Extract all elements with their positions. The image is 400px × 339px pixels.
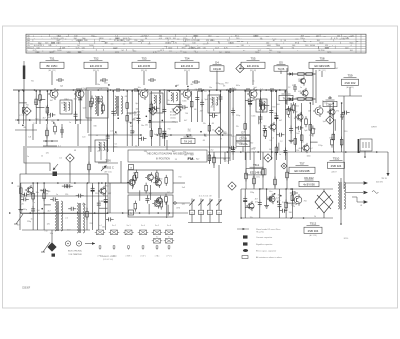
wire — [301, 103, 303, 152]
svg-text:2k2: 2k2 — [56, 208, 59, 210]
ground — [264, 204, 269, 209]
junction — [179, 90, 181, 92]
value label — [78, 99, 81, 101]
svg-text:10n: 10n — [34, 102, 37, 104]
test point TP2 — [66, 154, 74, 162]
wire — [244, 91, 246, 160]
diode D6 — [287, 97, 295, 100]
svg-text:10n: 10n — [138, 87, 141, 89]
svg-text:C0G40: C0G40 — [213, 67, 222, 71]
svg-text:100: 100 — [74, 35, 77, 37]
capacitor C34 — [342, 111, 350, 115]
svg-text:C5030F: C5030F — [22, 288, 31, 290]
output transformer TR10 — [338, 182, 346, 210]
switch S3 — [109, 230, 119, 235]
value label — [93, 125, 96, 127]
junction — [187, 89, 189, 91]
value label — [309, 148, 313, 150]
junction — [32, 182, 34, 184]
capacitor C56 — [62, 184, 70, 188]
svg-text:39: 39 — [46, 194, 48, 196]
svg-text:220p: 220p — [238, 143, 242, 145]
wire — [245, 152, 247, 189]
wire — [76, 119, 82, 121]
value label — [108, 193, 111, 195]
svg-text:10k: 10k — [218, 213, 221, 215]
svg-text:8p2: 8p2 — [172, 151, 175, 153]
diode D5 — [287, 72, 295, 75]
wire — [188, 222, 222, 224]
svg-text:330: 330 — [129, 114, 132, 116]
wire — [105, 183, 107, 230]
junction — [87, 182, 89, 184]
IF transformer TR5 — [256, 99, 267, 112]
junction — [101, 182, 103, 184]
svg-text:1n: 1n — [297, 120, 299, 122]
wire — [39, 91, 41, 124]
svg-text:Elect. capac. capacitor: Elect. capac. capacitor — [256, 250, 276, 253]
capacitor C22 — [229, 146, 237, 150]
svg-text:6,75: 6,75 — [224, 47, 228, 49]
wire — [79, 91, 81, 124]
wire — [261, 105, 270, 107]
svg-text:10n: 10n — [99, 201, 102, 203]
svg-text:560: 560 — [272, 106, 275, 108]
wire — [291, 189, 293, 218]
junction — [126, 90, 128, 92]
junction — [170, 134, 172, 136]
svg-text:94: 94 — [284, 40, 286, 42]
wire — [224, 152, 226, 162]
legend styroflex capacitor — [243, 242, 273, 246]
junction — [41, 208, 43, 210]
pot box P1 — [189, 210, 194, 214]
label D5 — [274, 60, 288, 71]
text B230 — [344, 238, 348, 240]
svg-text:10,7: 10,7 — [78, 52, 82, 54]
junction — [277, 201, 279, 203]
svg-text:2,2k: 2,2k — [267, 197, 271, 199]
svg-text:10n: 10n — [209, 87, 212, 89]
value label — [294, 118, 296, 120]
junction — [310, 102, 312, 104]
label D7 — [236, 130, 250, 146]
svg-text:1k: 1k — [26, 111, 28, 113]
svg-text:68: 68 — [320, 66, 322, 68]
wire — [241, 188, 333, 190]
note box FM — [128, 150, 207, 162]
wire — [262, 152, 264, 189]
svg-text:0,1: 0,1 — [97, 151, 100, 153]
value label — [223, 133, 226, 135]
value label — [222, 131, 227, 133]
capacitor C39 — [148, 78, 156, 82]
svg-text:0,1: 0,1 — [115, 143, 118, 145]
junction — [53, 122, 55, 124]
value label — [277, 200, 280, 202]
svg-text:1n: 1n — [69, 122, 71, 124]
capacitor C60 — [50, 197, 58, 201]
transistor Q3 — [298, 76, 305, 85]
junction — [79, 90, 81, 92]
wire — [20, 195, 108, 197]
junction — [260, 90, 262, 92]
junction — [169, 212, 171, 214]
wire — [278, 189, 280, 218]
wire — [229, 88, 231, 161]
svg-text:1620: 1620 — [230, 43, 234, 45]
svg-text:4k7: 4k7 — [176, 85, 179, 87]
capacitor C64 — [258, 199, 262, 207]
wire — [46, 124, 48, 146]
junction — [76, 119, 78, 121]
junction — [162, 120, 164, 122]
svg-text:94: 94 — [145, 38, 147, 40]
capacitor C20 — [209, 113, 217, 117]
label T58 — [309, 56, 335, 72]
junction — [345, 151, 347, 153]
resistor R45 — [145, 183, 148, 194]
wire — [138, 91, 140, 146]
resistor R51 — [213, 155, 216, 166]
svg-text:100: 100 — [345, 47, 348, 49]
resistor R30 — [287, 106, 290, 117]
value label — [263, 125, 266, 127]
svg-text:2k2: 2k2 — [271, 196, 274, 198]
wire — [13, 89, 287, 91]
junction — [259, 188, 261, 190]
svg-text:( PU ): ( PU ) — [167, 256, 172, 258]
junction — [376, 151, 378, 153]
value label — [220, 83, 225, 85]
wire — [340, 210, 342, 224]
svg-text:4k7: 4k7 — [210, 107, 213, 109]
test point TP7 — [326, 116, 334, 124]
value label — [274, 113, 277, 115]
svg-text:12: 12 — [41, 156, 43, 158]
capacitor C57 — [22, 193, 30, 197]
arrow to supply — [386, 173, 389, 176]
junction — [280, 195, 282, 197]
junction — [222, 134, 224, 136]
svg-text:15k: 15k — [167, 100, 170, 102]
connector box — [358, 139, 372, 153]
junction — [187, 86, 189, 88]
junction — [292, 188, 294, 190]
resistor R19 — [159, 126, 162, 137]
svg-text:10n: 10n — [228, 148, 231, 150]
wire — [150, 91, 152, 146]
svg-text:6,75: 6,75 — [76, 47, 80, 49]
svg-text:6,8: 6,8 — [270, 140, 273, 142]
svg-text:5p6: 5p6 — [254, 87, 257, 89]
junction — [98, 182, 100, 184]
resistor R32 — [292, 102, 295, 113]
svg-text:200: 200 — [321, 50, 324, 52]
svg-text:6,75: 6,75 — [153, 52, 157, 54]
svg-text:4k7: 4k7 — [45, 111, 48, 113]
svg-text:15k: 15k — [329, 138, 332, 140]
svg-text:D9-D12: D9-D12 — [304, 176, 314, 180]
junction — [333, 151, 335, 153]
svg-text:8p2: 8p2 — [136, 103, 139, 105]
wire — [218, 207, 220, 211]
junction — [107, 212, 109, 214]
svg-text:VOLTMETER: VOLTMETER — [68, 254, 82, 256]
wire — [286, 68, 288, 105]
switch caption — [127, 225, 131, 227]
junction — [276, 90, 278, 92]
junction — [131, 90, 133, 92]
transformer TR3 — [55, 201, 63, 231]
svg-text:750: 750 — [304, 200, 307, 202]
svg-text:1620: 1620 — [193, 35, 197, 37]
svg-text:220p: 220p — [251, 149, 255, 151]
svg-text:0C164: 0C164 — [170, 112, 177, 114]
junction — [240, 217, 242, 219]
IF transformer TR2 — [115, 96, 123, 116]
value label — [279, 136, 283, 138]
capacitor C66 — [277, 202, 281, 210]
svg-text:220: 220 — [90, 223, 93, 225]
svg-text:1n: 1n — [279, 154, 281, 156]
svg-text:1400: 1400 — [35, 52, 39, 54]
alignment table — [26, 34, 366, 54]
junction — [108, 84, 110, 86]
svg-text:1400: 1400 — [325, 47, 329, 49]
wire — [148, 121, 178, 123]
svg-text:1400: 1400 — [57, 50, 61, 52]
label T53 — [132, 56, 156, 72]
band label MW — [126, 256, 132, 258]
svg-text:4k7: 4k7 — [43, 118, 46, 120]
label T512 — [304, 221, 322, 237]
svg-text:ED 169/10B: ED 169/10B — [294, 169, 309, 173]
capacitor C9 — [130, 128, 134, 136]
svg-text:15k: 15k — [296, 150, 299, 152]
value label — [313, 129, 316, 131]
value label — [205, 99, 208, 101]
svg-text:ED 169/10B: ED 169/10B — [314, 64, 329, 68]
svg-text:2k2: 2k2 — [301, 142, 304, 144]
transistor T52 — [74, 88, 84, 100]
text CH6 — [174, 202, 181, 210]
label D1 types — [134, 109, 141, 120]
svg-text:(BF 214): (BF 214) — [104, 172, 112, 174]
label D6 — [279, 90, 293, 101]
junction — [22, 125, 24, 127]
svg-text:1400: 1400 — [319, 43, 323, 45]
resistor R23 — [244, 121, 247, 132]
wire — [309, 103, 311, 152]
ac squiggle — [372, 191, 378, 194]
value label — [90, 223, 93, 225]
svg-text:T59: T59 — [348, 73, 353, 77]
capacitor C18 — [195, 95, 199, 103]
svg-text:200: 200 — [52, 43, 55, 45]
junction — [340, 223, 342, 225]
svg-text:100n: 100n — [159, 178, 163, 180]
svg-text:15k: 15k — [247, 152, 250, 154]
svg-text:1k: 1k — [314, 216, 316, 218]
arrow at T56 — [101, 166, 107, 172]
value label — [289, 212, 292, 214]
junction — [266, 188, 268, 190]
value label — [21, 115, 24, 117]
tone block box2 — [128, 195, 173, 217]
svg-text:500 mV: 500 mV — [376, 182, 384, 184]
svg-text:2,2: 2,2 — [110, 130, 113, 132]
capacitor C58 — [65, 184, 73, 188]
test point TP9 — [149, 107, 157, 115]
label T510 — [328, 156, 345, 168]
capacitor C5 — [78, 95, 82, 103]
wire — [75, 91, 77, 124]
svg-text:BF 195C: BF 195C — [46, 64, 57, 68]
contact mark — [156, 246, 158, 250]
pot box P2 — [198, 210, 203, 214]
value label — [223, 86, 226, 88]
svg-text:6,75: 6,75 — [51, 52, 55, 54]
svg-text:6,8: 6,8 — [28, 137, 31, 139]
junction — [290, 217, 292, 219]
svg-text:0,1: 0,1 — [58, 145, 61, 147]
text electronic voltmeter — [68, 251, 83, 256]
value label — [280, 141, 284, 143]
junction — [359, 151, 361, 153]
svg-text:1n: 1n — [46, 106, 48, 108]
wire — [186, 71, 188, 85]
capacitor C36 — [263, 125, 267, 133]
wire — [166, 201, 168, 218]
transistor Q2 — [313, 105, 323, 117]
resistor R20 — [190, 99, 193, 110]
junction — [43, 212, 45, 214]
svg-text:750: 750 — [42, 197, 45, 199]
wire — [209, 214, 211, 222]
svg-text:10n: 10n — [184, 155, 187, 157]
junction — [107, 134, 109, 136]
svg-text:100: 100 — [266, 43, 269, 45]
junction — [229, 91, 231, 93]
value label — [130, 135, 133, 137]
value label — [231, 136, 234, 138]
capacitor C13 — [160, 135, 168, 139]
svg-text:ED-160 D: ED-160 D — [90, 64, 102, 68]
value label — [288, 117, 290, 119]
resistor R18 — [150, 128, 153, 139]
arrow to trimmer — [53, 164, 58, 170]
wire — [131, 91, 133, 146]
svg-text:10,7: 10,7 — [145, 35, 149, 37]
wire — [280, 71, 282, 75]
wire — [43, 183, 45, 230]
wire — [208, 91, 210, 164]
svg-text:4k7: 4k7 — [335, 68, 338, 70]
svg-text:220p: 220p — [105, 149, 109, 151]
switch S2 — [164, 239, 174, 244]
wire — [329, 96, 331, 99]
wire — [294, 103, 296, 152]
label T52 — [84, 56, 108, 72]
svg-text:T57: T57 — [300, 161, 305, 165]
svg-text:47k: 47k — [114, 134, 117, 136]
svg-text:x: x — [243, 50, 244, 52]
value label — [212, 117, 215, 119]
value label — [282, 202, 285, 204]
junction — [57, 89, 59, 91]
junction — [274, 193, 276, 195]
junction — [123, 89, 125, 91]
wire — [241, 217, 333, 219]
text C5030F — [22, 288, 31, 290]
capacitor C48 — [268, 88, 276, 92]
svg-text:94: 94 — [122, 50, 124, 52]
svg-text:Sw 3: Sw 3 — [127, 225, 131, 227]
resistor R10 — [39, 92, 42, 103]
capacitor C49 — [21, 197, 29, 201]
wire — [32, 183, 34, 230]
capacitor C44 — [132, 88, 140, 92]
capacitor C27 — [269, 108, 273, 116]
text LS — [360, 205, 363, 207]
contact mark — [128, 246, 130, 250]
svg-text:10k: 10k — [200, 213, 203, 215]
transistor Q12 — [152, 198, 160, 208]
svg-text:(0C44): (0C44) — [170, 118, 176, 120]
resistor R16 — [126, 113, 129, 124]
svg-text:330: 330 — [64, 99, 67, 101]
junction — [285, 90, 287, 92]
value label — [36, 192, 39, 194]
label D4 — [210, 60, 224, 71]
value labels — [31, 81, 257, 91]
capacitor C37 — [259, 114, 263, 122]
pot box P4 — [216, 210, 221, 214]
svg-text:468: 468 — [197, 47, 200, 49]
wire — [343, 96, 345, 189]
svg-text:220p: 220p — [250, 192, 254, 194]
wire — [209, 207, 211, 211]
svg-text:Wave bands K2 avec 45cm: Wave bands K2 avec 45cm — [256, 229, 281, 231]
legend resistance note — [242, 256, 282, 260]
transistor T51 — [48, 88, 58, 100]
svg-text:1k: 1k — [212, 129, 214, 131]
junction — [97, 89, 99, 91]
junction — [73, 89, 75, 91]
IF transformer TR4 — [60, 100, 72, 114]
svg-text:1620: 1620 — [345, 38, 349, 40]
svg-text:120: 120 — [231, 136, 234, 138]
label T59 — [342, 73, 359, 89]
wire — [32, 124, 34, 140]
svg-text:4k7: 4k7 — [178, 106, 181, 108]
potentiometer P1 — [189, 199, 194, 207]
svg-text:510: 510 — [203, 47, 206, 49]
capacitor C3 — [47, 113, 55, 117]
svg-text:468: 468 — [62, 47, 65, 49]
capacitor C2 — [293, 84, 297, 92]
potentiometer P2 — [198, 199, 203, 207]
capacitor C62 — [145, 195, 149, 203]
capacitor C14 — [162, 107, 166, 115]
wire — [287, 73, 316, 75]
value label — [65, 218, 69, 220]
value label — [209, 87, 212, 89]
svg-text:4k7: 4k7 — [130, 126, 133, 128]
svg-text:120: 120 — [21, 115, 24, 117]
svg-text:D3: D3 — [186, 133, 190, 137]
